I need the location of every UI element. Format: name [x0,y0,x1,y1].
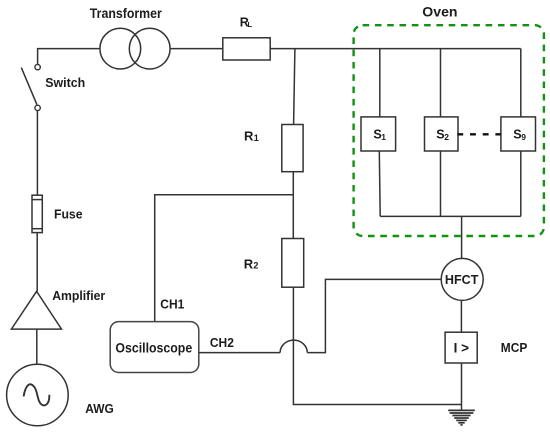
fuse F1 [32,195,83,232]
svg-text:Oscilloscope: Oscilloscope [115,339,192,355]
svg-text:MCP: MCP [501,340,528,355]
switch SW1 [21,64,85,110]
svg-text:Transformer: Transformer [90,5,162,21]
switch S box S2 [425,117,459,151]
svg-text:L: L [248,20,253,29]
wire amplifier to AWG [36,329,38,364]
transformer T1 [90,5,170,69]
svg-text:CH2: CH2 [210,335,234,350]
svg-text:I >: I > [454,340,470,355]
wire bus drop to S1 [379,49,381,117]
wire R1 to R2 [292,172,294,239]
wire R2 down to bottom rail and across to ground node [293,287,461,404]
wire CH1 from oscilloscope to R1/R2 node [155,195,294,322]
svg-text:R: R [244,257,254,272]
wire RL to oven bus [270,48,521,50]
resistor R2 [244,239,304,288]
svg-text:1: 1 [254,133,259,143]
svg-text:HFCT: HFCT [445,272,479,287]
svg-text:1: 1 [381,132,386,142]
wire bus drop to S9 [520,49,522,117]
svg-text:Switch: Switch [45,75,85,90]
svg-text:CH1: CH1 [160,297,184,312]
wire MCP to ground [461,363,463,410]
switch S box S1 [361,117,396,151]
svg-text:Oven: Oven [422,4,457,20]
wire S1 to bottom bus [378,151,381,216]
wire bus drop to S2 [440,49,442,117]
wire bottom bus to HFCT [461,216,463,258]
wire fuse to amplifier [36,233,38,292]
source AWG [7,364,114,426]
wire switch top to transformer [38,49,100,65]
wire hop over R2 branch [280,340,307,353]
oven dashed enclosure [354,4,544,236]
resistor R1 [244,125,303,172]
wire CH2 from oscilloscope [199,352,280,354]
wire S2 to bottom bus [440,151,442,216]
ground [448,410,475,425]
dashed link S2 to S9 [457,133,501,135]
wire node junction to R1 [294,49,295,125]
svg-text:Amplifier: Amplifier [52,288,105,303]
svg-text:AWG: AWG [85,402,114,416]
wire oven bottom bus [380,215,521,217]
switch S box S9 [501,117,536,151]
relay MCP [445,332,527,363]
svg-text:Fuse: Fuse [54,206,83,221]
wire HFCT to MCP [460,300,462,332]
svg-text:9: 9 [521,132,526,142]
svg-text:2: 2 [253,261,258,271]
wire switch to fuse [36,111,38,196]
wire S9 to bottom bus [520,151,522,216]
svg-text:2: 2 [444,132,449,142]
wire CH2 to HFCT [307,279,441,352]
amplifier A1 [11,288,105,329]
oscilloscope [110,322,199,373]
wire transformer to RL [170,48,223,50]
resistor RL [223,16,270,60]
current transformer HFCT [441,258,483,300]
svg-text:R: R [244,129,254,144]
